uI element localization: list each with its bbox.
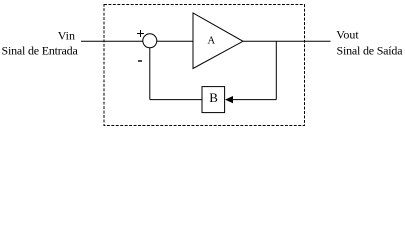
svg-text:Vin: Vin [58, 28, 75, 42]
op-amp A triangle [193, 13, 243, 69]
wire feedback rise to summing junction [149, 48, 151, 100]
feedback block B box [202, 87, 225, 113]
wire feedback bottom right [233, 99, 277, 101]
wire summing junction to amplifier [157, 40, 193, 42]
plus sign [137, 30, 144, 37]
svg-text:Sinal de Entrada: Sinal de Entrada [2, 44, 79, 58]
svg-text:Vout: Vout [336, 28, 359, 42]
minus sign [138, 60, 142, 62]
wire output [243, 40, 331, 42]
svg-text:Sinal de Saída: Sinal de Saída [337, 44, 404, 58]
wire input [81, 40, 143, 42]
arrowhead into block B [225, 96, 233, 103]
dashed system boundary box [104, 5, 305, 126]
wire feedback drop [275, 41, 277, 99]
summing junction [143, 34, 157, 48]
wire feedback bottom left [150, 99, 202, 101]
svg-text:A: A [208, 36, 216, 47]
svg-text:B: B [209, 90, 218, 105]
